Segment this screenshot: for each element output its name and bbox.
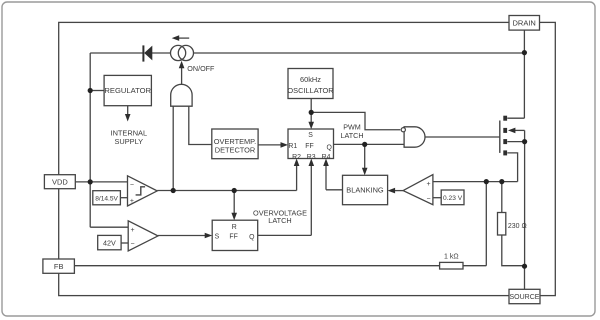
current source CS1 (171, 45, 194, 60)
svg-text:+: + (427, 181, 431, 188)
wire current sense line (433, 181, 518, 183)
node Q output junction (362, 142, 367, 147)
node comparator-AND junction (171, 188, 176, 193)
wire current direction arrow line (175, 37, 190, 39)
wire AND gate output to current source (181, 68, 183, 85)
svg-text:230 Ω: 230 Ω (508, 223, 527, 230)
comparator U7 current limit (403, 175, 433, 205)
wire 230 ohm bottom lead (502, 235, 525, 266)
wire MOSFET source to sense line (507, 153, 517, 182)
wire AND gate left input leg (172, 106, 174, 190)
overtemp detector box (212, 129, 258, 159)
chip boundary rectangle (59, 22, 556, 295)
wire NAND output to MOSFET gate (425, 136, 500, 138)
wire 1k resistor to sense line (463, 182, 486, 266)
arrowhead into R1 right (281, 142, 289, 148)
AND gate U1 on/off (171, 84, 192, 106)
wire FB to 1k resistor (74, 265, 439, 267)
node MOSFET body junction (522, 139, 527, 144)
wire oscillator to NAND top input (311, 112, 400, 129)
wire 42V to comparator minus (121, 242, 128, 244)
wire comparator output to overvoltage latch R (233, 191, 235, 214)
arrowhead internal supply down (125, 114, 131, 122)
svg-text:DETECTOR: DETECTOR (215, 146, 256, 155)
wire overvoltage latch Q to R3 (258, 165, 312, 235)
resistor 230 ohm (498, 213, 506, 236)
reference box 8/14.5V (93, 191, 121, 205)
svg-text:ON/OFF: ON/OFF (187, 64, 215, 73)
resistor 1 kohm (440, 262, 463, 269)
wire 0.23V to comparator minus (433, 197, 441, 199)
regulator box (104, 75, 151, 105)
svg-text:R4: R4 (322, 154, 331, 161)
svg-text:8/14.5V: 8/14.5V (95, 195, 118, 202)
wire blanking output to R4 (326, 165, 343, 190)
pin VDD (44, 175, 75, 189)
wire junction to SOURCE pin (524, 266, 526, 289)
svg-text:R: R (232, 224, 237, 231)
wire Q to blanking (364, 144, 366, 168)
svg-text:FF: FF (229, 234, 237, 241)
oscillator box 60kHz (288, 69, 333, 99)
node sense-1k junction (484, 179, 489, 184)
svg-text:Q: Q (249, 234, 255, 241)
wire top supply line mid segment (152, 52, 171, 54)
wire VDD to comparator minus (75, 181, 127, 183)
wire body vertical to source pin (524, 130, 526, 266)
comparator U5 overvoltage (128, 221, 158, 251)
wire MOSFET body connection (515, 129, 525, 131)
node sense-230 junction (499, 179, 504, 184)
label OVERVOLTAGE LATCH (253, 209, 307, 226)
svg-text:VDD: VDD (52, 178, 68, 187)
node source pin junction (522, 264, 527, 269)
svg-text:−: − (131, 241, 135, 248)
arrowhead MOSFET body left (508, 128, 516, 134)
wire overtemp detector to R1 (258, 144, 281, 146)
svg-text:SUPPLY: SUPPLY (114, 137, 143, 146)
node rail-regulator junction (88, 88, 93, 93)
label PWM LATCH (340, 122, 363, 139)
reference box 0.23 V (441, 190, 464, 205)
wire comparator output to R2 (157, 165, 296, 191)
wire rail to lower comparator (90, 226, 128, 228)
svg-text:LATCH: LATCH (340, 131, 363, 140)
svg-text:OSCILLATOR: OSCILLATOR (287, 86, 333, 95)
arrowhead into blanking right side left (388, 188, 396, 194)
wire 230 ohm top lead (501, 182, 503, 213)
wire 8/14.5V to comparator plus (120, 197, 127, 199)
arrowhead into R4 up (323, 159, 329, 167)
arrowhead into overvoltage latch S right (205, 233, 213, 239)
wire lower comparator to latch S (158, 235, 206, 237)
wire oscillator to S input (310, 99, 312, 123)
arrowhead into blanking down (362, 168, 368, 176)
svg-text:BLANKING: BLANKING (346, 186, 384, 195)
MOSFET Q1 gate line (499, 121, 501, 153)
wire MOSFET drain connection (507, 30, 524, 118)
pin FB (43, 259, 75, 273)
comparator U4 undervoltage with hysteresis (128, 176, 158, 206)
label INTERNAL SUPPLY (111, 129, 148, 146)
svg-text:R3: R3 (307, 154, 316, 161)
NAND gate U3 with inverted input (404, 127, 425, 147)
svg-text:60kHz: 60kHz (300, 75, 321, 84)
wire AND gate right input leg from overtemp (189, 106, 212, 144)
arrowhead current direction left (172, 35, 180, 41)
node oscillator junction (309, 110, 314, 115)
overvoltage latch flip-flop U6 (212, 220, 258, 250)
svg-text:FB: FB (54, 262, 64, 271)
arrowhead into R2 up (294, 159, 300, 167)
arrowhead into R3 up (309, 159, 315, 167)
svg-text:REGULATOR: REGULATOR (104, 86, 151, 95)
node comparator-OVlatch junction (232, 188, 237, 193)
wire top supply line left segment (90, 52, 144, 54)
MOSFET Q1 channel ticks (503, 116, 507, 156)
pin DRAIN (509, 16, 540, 31)
svg-text:S: S (215, 234, 220, 241)
wire MOSFET tick3 connection (507, 141, 524, 143)
PWM latch flip-flop U2 (288, 129, 334, 159)
svg-text:R1: R1 (288, 143, 297, 150)
svg-text:LATCH: LATCH (268, 216, 291, 225)
arrowhead into S of PWM latch down (308, 122, 314, 130)
wire Q output to NAND bottom input (334, 143, 405, 145)
blanking box (343, 175, 388, 204)
inverter bubble on NAND top input (401, 128, 405, 132)
pin SOURCE (509, 289, 540, 303)
svg-text:1 kΩ: 1 kΩ (444, 253, 459, 260)
svg-text:−: − (130, 182, 134, 189)
diode D1 (143, 45, 152, 61)
svg-text:−: − (427, 196, 431, 203)
wire left rail vertical (89, 53, 91, 227)
reference box 42V (98, 235, 121, 249)
svg-text:R2: R2 (292, 154, 301, 161)
svg-text:+: + (131, 227, 135, 234)
svg-text:+: + (130, 198, 134, 205)
wire top supply line right segment (193, 52, 524, 54)
node drain top junction (522, 50, 527, 55)
arrowhead into current source up (179, 61, 185, 69)
svg-text:FF: FF (305, 143, 313, 150)
arrowhead into overvoltage latch R down (231, 213, 237, 221)
svg-text:SOURCE: SOURCE (510, 294, 540, 301)
svg-text:Q: Q (327, 145, 333, 152)
wire current-limit comparator output to blanking (395, 190, 404, 192)
wire rail to regulator stub (90, 90, 104, 92)
hysteresis symbol (136, 187, 146, 195)
svg-text:42V: 42V (103, 238, 116, 247)
svg-text:S: S (308, 132, 313, 139)
node rail-VDD junction (88, 179, 93, 184)
svg-text:DRAIN: DRAIN (513, 19, 536, 28)
svg-text:0.23 V: 0.23 V (443, 195, 463, 202)
wire regulator to internal supply arrow (127, 106, 129, 115)
